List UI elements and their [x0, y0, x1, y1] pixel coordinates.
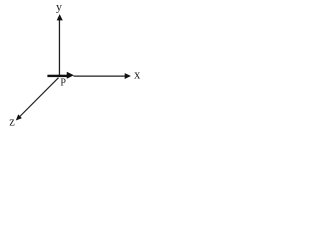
x-axis shaft (wire) [74, 75, 126, 77]
node P bold segment (vector shaft at origin) [47, 75, 67, 77]
x-axis arrowhead [125, 73, 131, 79]
svg-text:P: P [60, 78, 66, 89]
svg-text:x: x [134, 68, 141, 82]
z-axis shaft (wire) [19, 78, 58, 117]
vector arrowhead at P [67, 72, 74, 79]
z-axis arrowhead [16, 114, 22, 120]
svg-text:z: z [9, 114, 15, 128]
svg-text:y: y [56, 0, 62, 14]
y-axis shaft (wire) [58, 20, 60, 77]
y-axis arrowhead [57, 14, 63, 20]
